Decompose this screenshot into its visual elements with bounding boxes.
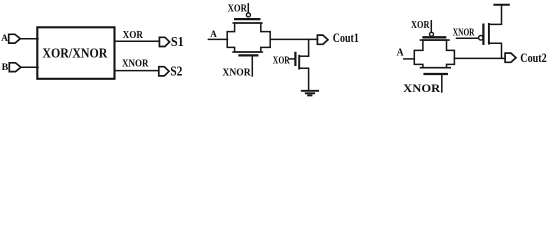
wire A to TG1 [208,38,227,40]
wire TG1 output to Cout1 [270,38,317,40]
PMOS M2 gate bubble [479,36,484,41]
svg-text:Cout1: Cout1 [333,31,359,45]
TG2 PMOS gate wire [430,21,432,33]
VDD rail [494,4,508,6]
output port S2 [159,67,169,76]
svg-text:XNOR: XNOR [222,67,251,79]
svg-text:XOR: XOR [228,2,248,14]
svg-text:B: B [2,62,9,73]
svg-text:XOR: XOR [273,55,290,66]
ground [302,91,318,96]
svg-text:A: A [1,33,8,44]
wire XNOR to S2 [115,70,159,72]
output port S1 [159,37,169,46]
svg-text:A: A [397,48,404,59]
svg-text:Cout2: Cout2 [520,51,546,65]
wire XOR to S1 [115,40,160,42]
PMOS M2 gate wire [457,37,479,39]
TG1 PMOS gate wire [247,4,249,13]
svg-text:S2: S2 [170,64,182,79]
TG2 NMOS channel [421,67,451,69]
svg-text:XNOR: XNOR [453,26,475,38]
XOR/XNOR block [37,27,114,79]
PMOS M2 drain leg [489,43,502,58]
svg-text:XOR: XOR [123,29,144,41]
TG1 NMOS gate bar [240,54,258,56]
input port connector A [9,34,21,43]
wire A to box [20,38,38,40]
PMOS M2 gate bar [482,25,484,44]
TG1 PMOS channel [233,22,262,24]
NMOS M1 gate wire [290,58,295,60]
NMOS M1 drain leg [299,55,308,57]
PMOS M2 source leg to VDD [489,5,502,24]
TG1 NMOS channel [233,51,262,53]
output port Cout2 [505,53,516,62]
transmission gate TG2 body [414,40,454,68]
output port Cout1 [317,35,328,44]
PMOS M2 channel [488,24,490,44]
svg-text:A: A [210,29,217,40]
svg-text:XOR/XNOR: XOR/XNOR [42,46,107,61]
svg-text:S1: S1 [171,34,184,49]
NMOS M1 channel [298,56,300,69]
NMOS M1 source leg [299,68,308,90]
wire junction to NMOS M1 drain [308,39,310,56]
TG2 PMOS channel [420,39,449,41]
TG2 PMOS gate bar [424,36,446,38]
wire A to TG2 [404,58,415,60]
svg-text:XOR: XOR [411,19,430,31]
NMOS M1 gate bar [294,53,296,65]
TG2 NMOS gate wire [441,75,443,92]
TG2 PMOS gate bubble [430,32,434,36]
wire B to box [21,66,38,68]
wire TG2 output to Cout2 [454,57,505,59]
TG1 NMOS gate wire [251,57,253,77]
TG2 NMOS gate bar [425,73,447,75]
TG1 PMOS gate bar [235,18,259,20]
input port connector B [9,63,21,72]
svg-text:XNOR: XNOR [403,83,441,95]
TG1 PMOS gate bubble [246,13,250,17]
transmission gate TG1 body [227,23,270,52]
svg-text:XNOR: XNOR [122,58,149,70]
